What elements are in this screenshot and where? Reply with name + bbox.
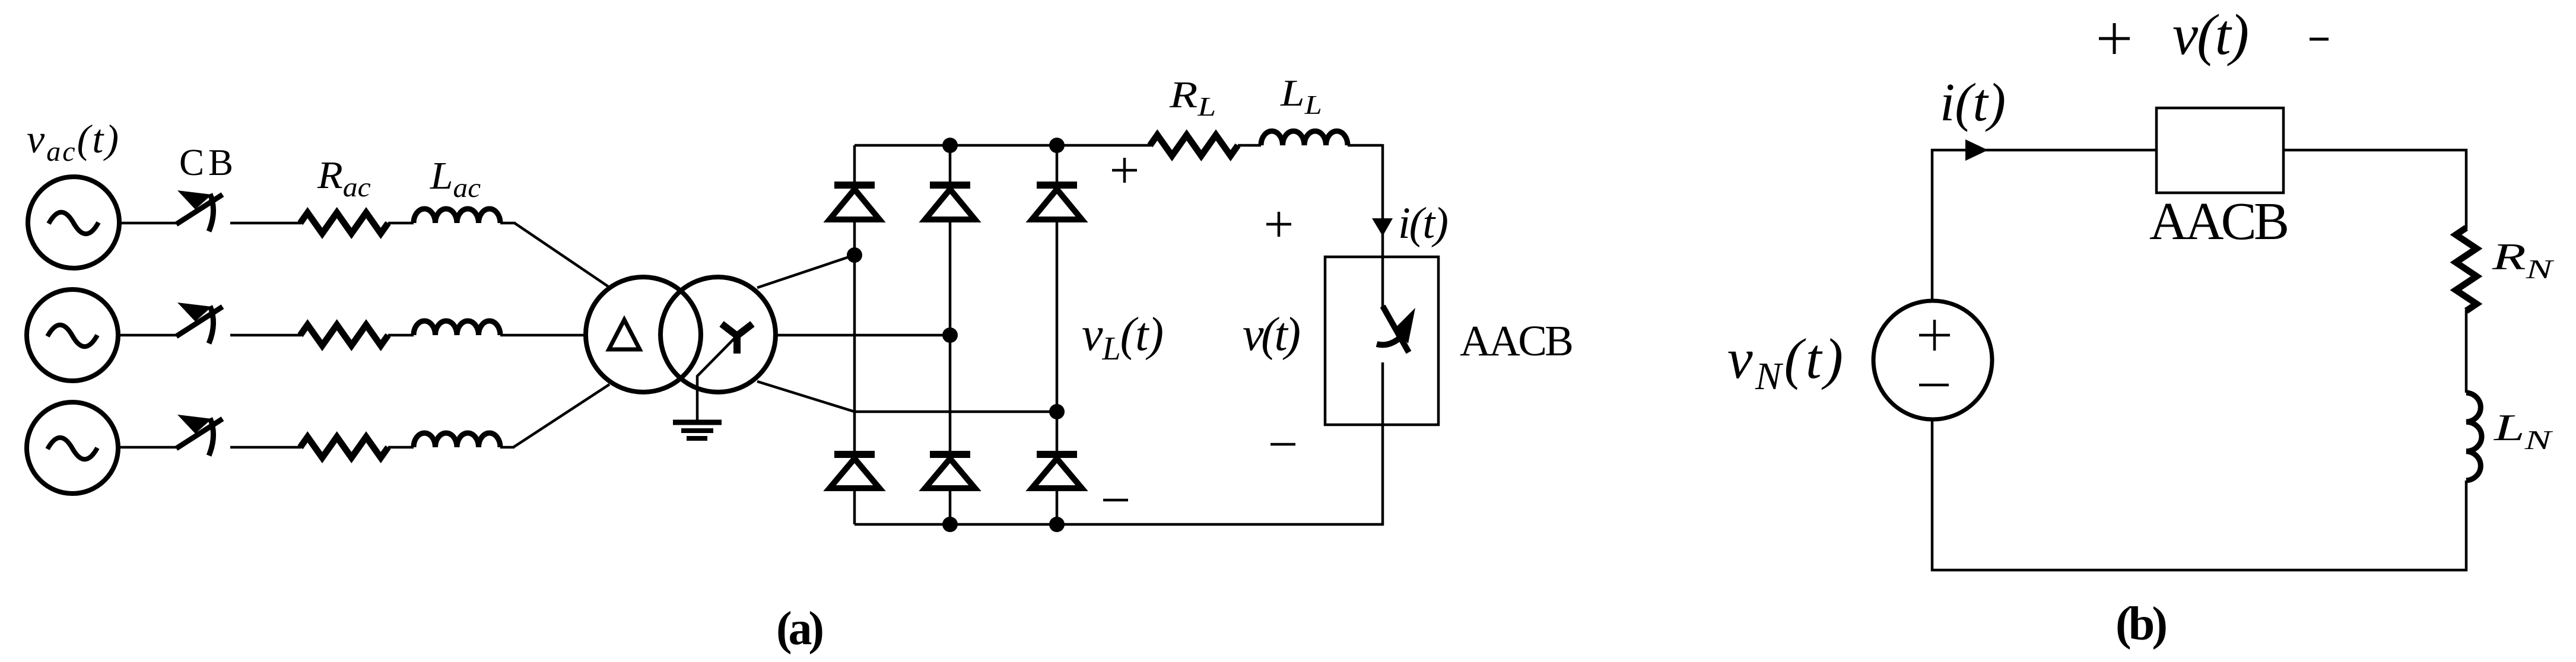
wire phase C diagonal to transformer [513, 384, 609, 447]
svg-text:v(t): v(t) [2172, 3, 2249, 66]
wire top bus to resistor RL [855, 144, 1151, 147]
wire LL to corner [1348, 144, 1383, 147]
ac source VS3 [27, 402, 118, 494]
wire phase C breaker to resistor [230, 446, 301, 449]
inductor Lac phase B [414, 321, 500, 335]
wire bridge leg 3 [1056, 145, 1059, 524]
node phase a on leg 1 [847, 247, 862, 263]
wire phase C resistor to inductor [388, 446, 414, 449]
AACB breaker glyph part a [1377, 257, 1415, 425]
neutral wire [697, 337, 736, 421]
diode D5 (top leg 3) [1032, 182, 1082, 219]
wire phase C source to breaker [120, 446, 177, 449]
node top bus leg 3 [1049, 138, 1065, 153]
diode D2 (bottom leg 3) [1032, 451, 1082, 488]
diode D1 (top leg 1) [830, 182, 879, 219]
circuit breaker CB phase B [176, 303, 223, 343]
ac source VS2 [27, 289, 118, 381]
delta symbol [609, 320, 640, 349]
wire phase A diagonal to transformer [514, 223, 608, 287]
transformer T1 wye winding circle [660, 277, 776, 392]
wire AACB box to bottom bus [1381, 425, 1384, 526]
wire RL to LL [1238, 144, 1261, 147]
node top bus leg 2 [942, 138, 958, 153]
resistor Rac phase B [300, 325, 388, 346]
svg-text:i(t): i(t) [1940, 72, 2006, 132]
wire bottom bus [855, 523, 1384, 526]
ground [673, 422, 722, 438]
svg-text:i(t): i(t) [1398, 199, 1449, 248]
wire bottom [1931, 569, 2467, 572]
resistor Rac phase C [300, 437, 388, 458]
wye symbol [722, 324, 752, 354]
svg-text:(b): (b) [2116, 598, 2168, 650]
svg-text:(a): (a) [776, 603, 824, 655]
svg-text:v(t): v(t) [1243, 308, 1301, 361]
diode D3 (top leg 2) [925, 182, 975, 219]
ac source VS1 [28, 177, 119, 268]
resistor RL [1150, 135, 1238, 156]
svg-text:vL(t): vL(t) [1082, 308, 1164, 367]
wire left vertical lower [1931, 419, 1934, 571]
wire left vertical upper [1931, 149, 1934, 301]
current arrow i(t) part a [1372, 218, 1393, 236]
inductor LL [1261, 131, 1348, 145]
wire secondary phase a tap to bridge leg 1 [757, 255, 855, 288]
inductor Lac phase C [414, 433, 500, 447]
wire secondary phase b tap to bridge leg 2 [776, 334, 950, 337]
wire secondary phase c horizontal to bridge leg 3 [855, 410, 1057, 413]
plus sign vL top [1112, 158, 1137, 183]
wire phase C inductor to bend [500, 446, 514, 449]
wire right vertical upper [2465, 149, 2468, 229]
node phase c on leg 3 [1049, 404, 1065, 419]
inductor LN [2466, 393, 2482, 480]
inductor Lac phase A [414, 209, 500, 223]
node bottom bus leg 3 [1049, 517, 1065, 532]
voltage source vN [1873, 301, 1992, 419]
wire phase B breaker to resistor [230, 334, 301, 337]
wire phase B resistor to inductor [388, 334, 414, 337]
wire loop part b [1931, 149, 2467, 571]
circuit breaker CB phase A [176, 190, 223, 231]
plus sign v(t) part a [1266, 212, 1291, 237]
svg-text:vN(t): vN(t) [1727, 327, 1843, 398]
wire phase B inductor to transformer [500, 334, 587, 337]
node bottom bus leg 2 [942, 517, 958, 532]
wire phase A source to breaker [121, 222, 177, 225]
wire phase A resistor to inductor [388, 222, 414, 225]
minus sign v(t) part a [1270, 443, 1295, 446]
wire phase B source to breaker [120, 334, 177, 337]
minus sign v(t) part b [2310, 38, 2329, 41]
minus sign vL bottom [1103, 499, 1128, 502]
node phase b on leg 2 [942, 327, 958, 343]
wire AACB to top right corner [2283, 149, 2467, 152]
wire corner down to AACB box [1381, 144, 1384, 257]
resistor RN [2456, 228, 2477, 311]
svg-text:AACB: AACB [2149, 192, 2289, 251]
resistor Rac phase A [300, 213, 388, 234]
AACB box part a [1325, 257, 1438, 425]
plus sign v(t) part b [2099, 23, 2130, 54]
wire phase A inductor to bend [500, 222, 516, 225]
wire secondary phase c diagonal [757, 381, 855, 412]
wire right vertical lower [2465, 480, 2468, 571]
wire bridge leg 2 [949, 145, 952, 524]
circuit breaker CB phase C [176, 415, 223, 456]
wire right vertical middle [2465, 310, 2468, 393]
diode D6 (bottom leg 2) [925, 451, 975, 488]
transformer T1 delta winding circle [586, 277, 701, 392]
wire bridge leg 1 [853, 145, 856, 524]
current arrow i(t) part b [1965, 139, 1988, 161]
AACB box part b [2156, 108, 2283, 193]
diode D4 (bottom leg 1) [830, 451, 879, 488]
svg-text:AACB: AACB [1460, 317, 1574, 365]
wire phase A breaker to resistor [230, 222, 301, 225]
wire top left to AACB [1931, 149, 2156, 152]
